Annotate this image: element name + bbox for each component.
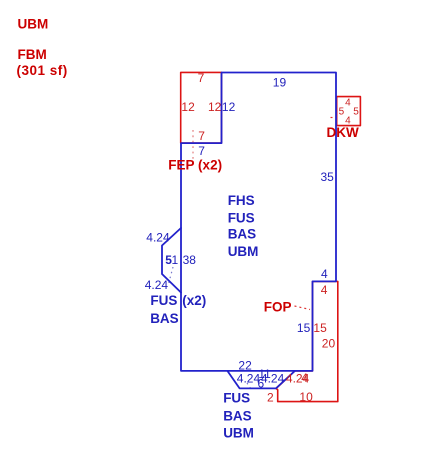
svg-text:22: 22 bbox=[238, 358, 252, 372]
svg-text:38: 38 bbox=[183, 253, 197, 267]
svg-text:5: 5 bbox=[339, 106, 345, 117]
svg-text:FBM: FBM bbox=[18, 47, 47, 62]
svg-text:1: 1 bbox=[172, 253, 179, 267]
svg-text:BAS: BAS bbox=[228, 227, 257, 242]
svg-text:10: 10 bbox=[299, 390, 313, 404]
svg-text:UBM: UBM bbox=[223, 425, 254, 440]
svg-text:FUS: FUS bbox=[223, 391, 250, 406]
svg-text:5: 5 bbox=[353, 106, 359, 117]
svg-text:FOP: FOP bbox=[264, 300, 292, 315]
svg-text:(x2): (x2) bbox=[182, 293, 206, 308]
svg-text:4: 4 bbox=[345, 98, 351, 109]
svg-text:4: 4 bbox=[345, 116, 351, 127]
svg-text:BAS: BAS bbox=[150, 311, 179, 326]
svg-text:19: 19 bbox=[273, 76, 287, 90]
svg-text:4.24: 4.24 bbox=[145, 278, 169, 292]
svg-text:(301 sf): (301 sf) bbox=[17, 63, 68, 78]
svg-text:FUS: FUS bbox=[150, 293, 177, 308]
svg-text:15: 15 bbox=[297, 321, 311, 335]
svg-text:UBM: UBM bbox=[18, 16, 49, 31]
svg-text:4.24: 4.24 bbox=[261, 372, 285, 386]
svg-text:FHS: FHS bbox=[228, 193, 255, 208]
svg-text:4: 4 bbox=[321, 267, 328, 281]
svg-text:35: 35 bbox=[321, 170, 335, 184]
svg-text:2: 2 bbox=[267, 391, 274, 405]
svg-text:FUS: FUS bbox=[228, 210, 255, 225]
svg-text:20: 20 bbox=[322, 336, 336, 350]
svg-text:12: 12 bbox=[181, 100, 195, 114]
svg-text:DKW: DKW bbox=[327, 125, 359, 140]
svg-text:7: 7 bbox=[198, 129, 205, 143]
svg-text:4: 4 bbox=[321, 283, 328, 297]
svg-text:12: 12 bbox=[208, 100, 222, 114]
svg-text:FEP (x2): FEP (x2) bbox=[168, 158, 222, 173]
svg-text:12: 12 bbox=[222, 100, 236, 114]
svg-text:15: 15 bbox=[313, 321, 327, 335]
svg-text:BAS: BAS bbox=[223, 408, 252, 423]
svg-text:7: 7 bbox=[198, 71, 205, 85]
svg-text:4: 4 bbox=[301, 371, 308, 385]
svg-text:7: 7 bbox=[198, 144, 205, 158]
svg-text:UBM: UBM bbox=[228, 244, 259, 259]
svg-text:4.24: 4.24 bbox=[146, 231, 170, 245]
